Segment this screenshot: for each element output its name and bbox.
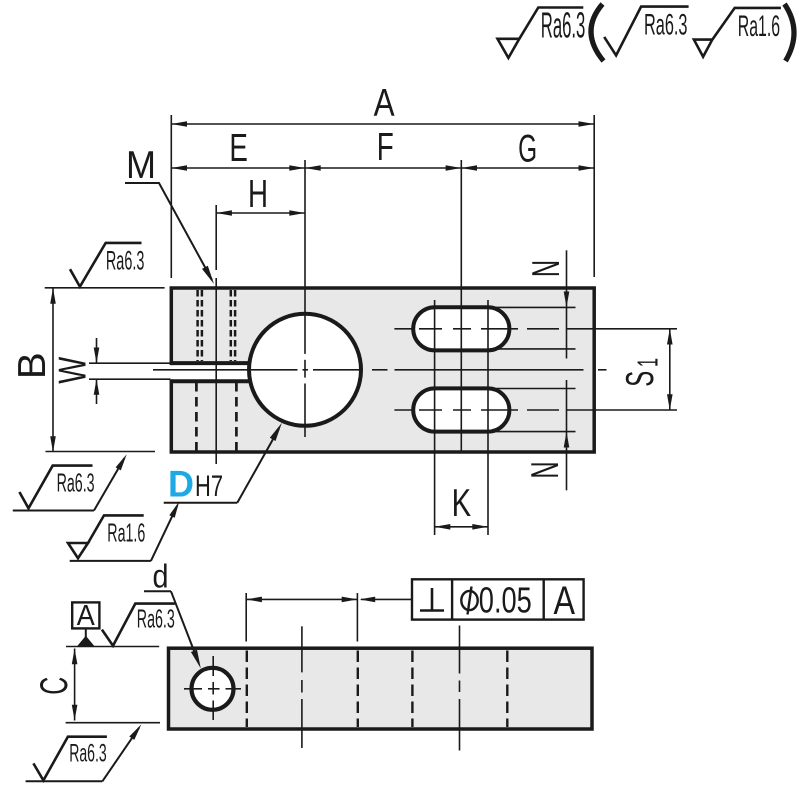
dimension G <box>461 128 594 171</box>
dimension A <box>171 82 594 127</box>
svg-text:A: A <box>77 600 96 632</box>
svg-text:M: M <box>126 144 156 187</box>
svg-text:N: N <box>525 260 568 277</box>
svg-text:G: G <box>518 128 537 171</box>
slit lower edge <box>171 379 262 383</box>
svg-text:Ra1.6: Ra1.6 <box>738 10 780 43</box>
dimension over side view (bore width) <box>246 593 357 642</box>
extension line side view top <box>66 646 159 648</box>
parenthesis left <box>591 4 604 61</box>
dimension W <box>52 338 100 404</box>
datum A symbol <box>72 600 99 646</box>
extension line part left top <box>170 115 172 278</box>
dimension S1 <box>619 329 672 410</box>
svg-text:W: W <box>52 356 95 383</box>
dimension K <box>435 482 488 530</box>
roughness Ra6.3 at datum <box>102 603 175 645</box>
extension line part top left <box>45 287 165 289</box>
slit upper edge <box>171 361 262 365</box>
hidden slot edges (side view) <box>412 651 507 728</box>
svg-text:C: C <box>33 677 76 695</box>
hidden hole lines d (lower half) <box>196 382 236 451</box>
slot centre vertical / F-G extension <box>460 160 462 451</box>
slot upper (obround) <box>413 307 509 350</box>
hole d (side view circle) <box>192 668 234 710</box>
svg-text:F: F <box>377 126 394 169</box>
slot lower (obround) <box>413 388 509 431</box>
label d with leader <box>144 559 201 669</box>
extension line part right top <box>593 115 595 277</box>
dimension C <box>33 649 77 721</box>
svg-text:A: A <box>374 82 395 125</box>
roughness symbol Ra1.6 (inside parens) <box>694 8 781 57</box>
label M with leader <box>125 144 214 284</box>
svg-text:1: 1 <box>632 358 664 367</box>
svg-text:S: S <box>619 371 662 387</box>
svg-text:A: A <box>553 579 575 623</box>
dimension N top <box>525 250 569 358</box>
svg-text:N: N <box>524 462 567 479</box>
dimension E <box>171 127 305 171</box>
roughness Ra6.3 top-left <box>70 243 144 287</box>
svg-text:D: D <box>168 464 194 505</box>
dimension H <box>216 173 305 216</box>
centerline slot (side view) <box>459 626 461 751</box>
side view body <box>169 648 593 729</box>
centerlines hole d <box>184 656 241 720</box>
svg-text:E: E <box>229 127 248 170</box>
label D H7 with leader <box>164 423 282 505</box>
slot lower centreline <box>394 409 677 411</box>
feature control frame leader <box>360 597 413 603</box>
svg-text:Ra6.3: Ra6.3 <box>69 740 107 768</box>
dimension B <box>11 288 56 452</box>
dimension F <box>305 126 461 171</box>
svg-text:d: d <box>153 559 169 596</box>
roughness symbol Ra6.3 (inside parens) <box>604 7 688 56</box>
svg-text:K: K <box>452 482 472 525</box>
centerline main horizontal <box>153 369 607 371</box>
centerline M hole <box>215 205 217 270</box>
roughness Ra1.6 left with leader <box>68 501 179 561</box>
hidden thread lines M (upper half) <box>198 290 236 361</box>
hidden bore edges (side view) <box>247 651 358 728</box>
extension line side view bottom <box>66 722 160 724</box>
feature control frame <box>412 579 584 623</box>
svg-text:Ra6.3: Ra6.3 <box>541 4 586 45</box>
centerline bore vertical <box>304 160 306 437</box>
slot upper centreline <box>394 328 677 330</box>
svg-text:0.05: 0.05 <box>479 580 532 621</box>
svg-text:Ra6.3: Ra6.3 <box>644 9 688 42</box>
svg-text:B: B <box>11 352 54 379</box>
svg-text:H7: H7 <box>195 470 223 503</box>
slot arc-centre line left / K extension <box>434 300 436 535</box>
W extension lines <box>89 362 171 364</box>
svg-text:Ra1.6: Ra1.6 <box>107 517 145 547</box>
svg-text:Ra6.3: Ra6.3 <box>57 468 95 498</box>
part body (top view plate) <box>171 288 594 452</box>
svg-text:H: H <box>248 173 268 216</box>
dimension N bottom <box>524 380 569 490</box>
roughness Ra6.3 left-lower with leader <box>13 454 127 510</box>
svg-text:Ra6.3: Ra6.3 <box>137 603 175 633</box>
centerline bore (side view) <box>301 626 303 748</box>
svg-text:Ra6.3: Ra6.3 <box>106 246 145 276</box>
roughness symbol Ra6.3 (overall) <box>498 4 586 58</box>
bore D (large hole) <box>249 314 361 426</box>
roughness Ra6.3 bottom with leader <box>26 724 142 781</box>
extension line part bottom left <box>46 451 156 453</box>
slit opening (white gap through left edge) <box>169 365 253 379</box>
slot arc-centre line right / K extension <box>487 300 489 535</box>
parenthesis right <box>785 4 795 61</box>
slot tangent extension lines <box>490 307 576 431</box>
